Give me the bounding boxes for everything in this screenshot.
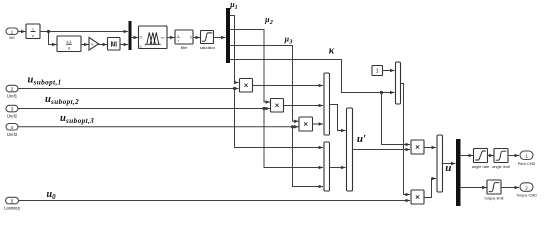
saturation block [201,31,214,44]
block B2 discrete derivative [57,36,81,52]
svg-text:usubopt,3: usubopt,3 [60,113,94,125]
wire demux F to torque limit [461,187,487,189]
wire fuzzy to filter [167,37,174,39]
inport 3 Uref2 [6,105,18,118]
product P1 [240,79,253,93]
svg-text:2: 2 [11,87,14,92]
svg-text:1: 1 [525,154,528,159]
outport 2 Torque CMD [516,183,537,198]
svg-text:1: 1 [11,29,14,34]
angle rate block [474,149,488,163]
wire u_subopt,3 [18,126,298,128]
svg-text:μ2: μ2 [264,15,273,26]
wire mu2: demux out2 down to P2 [230,30,270,103]
mux A [324,73,330,135]
svg-text:Uref3: Uref3 [7,132,18,137]
product P3 [299,117,313,131]
svg-text:μ1: μ1 [229,0,238,11]
svg-text:usubopt,2: usubopt,2 [45,94,79,106]
wire u3 branch down to mux B [293,127,323,187]
wire mux M1 to fuzzy [131,37,138,39]
wire P3 to mux A [313,123,323,125]
block B3 abs [108,38,121,51]
gain triangle K [89,38,99,51]
svg-text:Uref1: Uref1 [7,94,18,99]
wire B1 to mux M1 top input [40,31,128,33]
wire u1 branch down to mux B [235,89,323,148]
svg-text:Torque CMD: Torque CMD [516,194,537,198]
svg-text:k: k [92,42,94,47]
svg-text:usubopt,1: usubopt,1 [28,74,62,86]
product P2 [271,99,284,113]
wire B2 to gain [81,44,88,46]
inport 2 Uref1 [6,85,18,98]
wire branch down to B2 [49,32,57,45]
wire u2 branch down to mux B [264,109,323,168]
wire M5 to mux E [424,179,436,198]
svg-text:u′: u′ [357,133,366,145]
wire u_subopt,1 [18,88,238,90]
mux C [347,108,353,191]
outport 1 Pitch CMD [518,151,536,166]
wire constant to sum D [383,70,395,72]
angle limit block [494,149,508,163]
svg-text:3: 3 [11,107,14,112]
junction u2 branch [262,107,265,110]
block B1 unit delay [26,24,40,39]
svg-text:Laststep: Laststep [4,206,21,211]
svg-text:2: 2 [525,186,528,191]
product M4 [411,140,424,154]
svg-text:Uref2: Uref2 [7,114,18,119]
wire port1 to B1 [18,31,25,33]
junction u1 branch [233,87,236,90]
mux E [437,135,443,192]
svg-text:angle limit: angle limit [492,164,510,169]
wire u' mux C to M4 [353,149,410,151]
wire demux F to angle rate [461,155,473,157]
junction kappa branch [380,91,383,94]
inport 5 Laststep (u0) [4,197,21,210]
filter block [175,30,193,44]
svg-text:filter: filter [181,46,188,50]
constant 1 block [372,66,383,76]
svg-text:5: 5 [11,199,14,204]
wire mu1: demux out1 down to P1 [230,16,238,83]
svg-text:angle rate: angle rate [472,164,489,169]
svg-text:u0: u0 [47,189,57,201]
junction u3 branch [291,125,294,128]
svg-text:saturation: saturation [200,46,215,50]
svg-text:WG: WG [9,36,15,40]
svg-text:4: 4 [11,125,14,130]
svg-text:d: d [68,46,70,51]
svg-text:z: z [32,33,34,38]
mux B [324,142,330,191]
wire angle rate to angle limit [488,155,494,157]
wire mux A to mux C [330,105,346,131]
demux D1 black bar [226,8,230,63]
product M5 [411,190,424,204]
svg-text:μ3: μ3 [284,34,293,45]
torque limit block [487,180,501,194]
wire P1 to mux A [253,85,323,87]
junction on B1 output [47,30,50,33]
svg-text:Pitch CMD: Pitch CMD [518,162,536,166]
wire kappa branch down to M4 [382,93,410,145]
wire kappa: demux out4 right, down, to sum D [230,60,394,93]
wire mux B to mux C [330,167,346,169]
wire abs to mux M1 bottom input [120,44,128,46]
svg-text:out: out [161,35,165,39]
svg-text:torque limit: torque limit [484,196,504,201]
inport 1 WG [6,28,18,40]
wire u_subopt,2 [18,108,270,110]
svg-text:1: 1 [376,69,379,75]
wire gain to abs [99,44,107,46]
svg-text:κ: κ [329,46,335,57]
inport 4 Uref3 [6,124,18,137]
wire mux E to demux F [443,163,456,165]
wire angle limit to Pitch CMD [508,155,519,157]
fuzzy logic controller block [139,26,168,49]
demux F black bar [456,139,461,206]
wire M4 to mux E [424,147,436,149]
wire P2 to mux A [284,105,323,107]
wire saturation to demux D1 [214,37,226,39]
sum D (1-kappa) [396,62,401,104]
wire sum D output down to M5 [401,84,410,195]
wire mu3: demux out3 down to P3 [230,46,298,122]
wire u0 to M5 [19,200,410,202]
mux M1 black bar [129,21,132,50]
wire filter to saturation [193,37,200,39]
wire torque limit to Torque CMD [501,187,519,189]
